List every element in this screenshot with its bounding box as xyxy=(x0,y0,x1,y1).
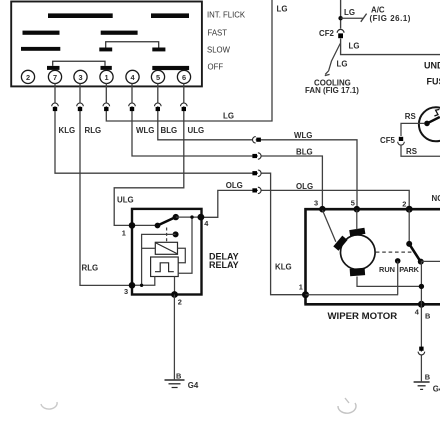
park contact wire right xyxy=(421,260,440,262)
relay coil K1 xyxy=(155,242,177,254)
svg-text:3: 3 xyxy=(124,287,128,296)
switch pad OFF 2 xyxy=(101,66,112,70)
terminal 2 internal wire to timer xyxy=(174,277,176,295)
wire CF2 down to underhood feed xyxy=(341,39,440,55)
svg-text:B: B xyxy=(176,371,181,380)
svg-text:FUSE/R: FUSE/R xyxy=(427,77,440,87)
page smudge left xyxy=(41,402,57,409)
svg-text:4: 4 xyxy=(204,219,209,228)
inline connector on OLG run xyxy=(252,187,261,193)
svg-text:INT. FLICK: INT. FLICK xyxy=(207,10,246,19)
svg-text:RELAY: RELAY xyxy=(209,260,239,270)
NC contact wire to left bus xyxy=(142,234,176,285)
connector pin on LG wire below switch xyxy=(103,103,110,111)
svg-text:CF2: CF2 xyxy=(319,29,335,38)
svg-text:OLG: OLG xyxy=(296,182,313,191)
delay relay terminal 4 dot xyxy=(198,214,205,221)
terminal 3 internal wire to timer xyxy=(132,277,155,286)
switch pad OFF 1 xyxy=(47,66,60,70)
wiper motor terminal 3 dot xyxy=(319,206,326,213)
connector CF5 xyxy=(398,137,405,145)
mechanical link dashed xyxy=(166,228,168,243)
bottom brush wire to park vertical xyxy=(357,277,421,287)
svg-text:SLOW: SLOW xyxy=(207,45,231,54)
dashed mechanical link motor to park xyxy=(376,251,412,253)
delay relay contact left dot xyxy=(155,223,161,229)
wiper motor terminal 5 dot xyxy=(354,206,361,213)
wire terminal 2 to park pivot xyxy=(408,210,410,242)
connector pin on WLG wire below switch xyxy=(129,103,136,111)
wiper motor box M1 xyxy=(304,208,440,304)
terminal circle 4 xyxy=(126,70,139,83)
svg-text:1: 1 xyxy=(299,283,303,292)
svg-text:PARK: PARK xyxy=(399,265,419,274)
svg-text:RS: RS xyxy=(405,112,416,121)
wire OLG from delay relay terminal 4 xyxy=(202,190,409,217)
wire terminal 5 to top brush xyxy=(356,210,358,230)
junction dot on term4 line xyxy=(190,215,193,218)
motor brush top xyxy=(349,228,365,237)
delay relay box U2 xyxy=(132,209,202,295)
svg-text:CF5: CF5 xyxy=(380,136,396,145)
delay relay ground wire xyxy=(173,295,175,380)
bridge wire SLOW xyxy=(106,42,159,48)
svg-text:2: 2 xyxy=(26,73,30,82)
wiper motor terminal 4 dot xyxy=(418,301,425,308)
connector CF2 xyxy=(337,29,344,38)
inline connector on KLG run xyxy=(252,170,261,176)
svg-text:OLG: OLG xyxy=(226,181,243,190)
svg-text:ULG: ULG xyxy=(117,196,134,205)
svg-text:WLG: WLG xyxy=(136,126,154,135)
inline connector on WLG run xyxy=(252,153,261,159)
svg-text:WIPER MOTOR: WIPER MOTOR xyxy=(328,311,398,322)
svg-text:WLG: WLG xyxy=(294,131,312,140)
connector pin on ground wire xyxy=(418,347,425,355)
switch bar SLOW left xyxy=(21,47,60,51)
svg-text:6: 6 xyxy=(182,73,186,82)
motor armature circle xyxy=(341,235,376,270)
park contact dot xyxy=(418,259,424,265)
svg-text:NOT: NOT xyxy=(432,194,440,203)
svg-text:2: 2 xyxy=(402,200,406,209)
wire LG from terminal 1 xyxy=(106,0,272,121)
svg-text:G4: G4 xyxy=(433,384,440,393)
delay relay wire contact to terminal 4 xyxy=(176,216,201,218)
svg-text:OFF: OFF xyxy=(208,63,224,72)
wiper switch box S1 xyxy=(11,2,202,87)
svg-text:4: 4 xyxy=(415,307,420,316)
switch bar INT.FLICK right xyxy=(151,13,189,18)
terminal circle 7 xyxy=(48,70,61,83)
terminal circle 2 xyxy=(21,70,34,83)
junction dot brush/park xyxy=(419,284,424,289)
junction dot LG/AC xyxy=(338,16,342,20)
motor brush left xyxy=(333,236,347,251)
wire terminal 3 to brush xyxy=(322,210,335,242)
connector pin on KLG wire below switch xyxy=(52,103,59,111)
svg-text:B: B xyxy=(425,372,430,381)
page smudge right xyxy=(338,398,356,413)
svg-text:B: B xyxy=(425,312,430,321)
svg-text:LG: LG xyxy=(349,42,360,51)
svg-text:5: 5 xyxy=(351,199,355,208)
svg-text:FAN (FIG 17.1): FAN (FIG 17.1) xyxy=(305,86,359,95)
park switch arm xyxy=(409,244,420,261)
relay arm tick xyxy=(434,109,439,116)
ground G4 xyxy=(165,380,185,388)
RS wire lower xyxy=(401,145,440,156)
terminal circle 3 xyxy=(74,70,87,83)
wiper terminal 4 ground wire xyxy=(420,304,422,381)
inline connector on BLG run xyxy=(253,137,261,143)
svg-text:(FIG 26.1): (FIG 26.1) xyxy=(370,14,411,23)
wire KLG from terminal 7 xyxy=(55,83,304,294)
timer lower-right lead to terminal 4 bus xyxy=(178,217,192,273)
svg-text:LG: LG xyxy=(277,5,288,14)
timer unit box xyxy=(151,257,179,277)
svg-text:7: 7 xyxy=(53,73,57,82)
terminal circle 6 xyxy=(177,70,190,83)
wire ULG from terminal 6 xyxy=(114,83,184,225)
svg-text:RLG: RLG xyxy=(82,263,99,272)
terminal circle 1 xyxy=(100,70,113,83)
svg-text:KLG: KLG xyxy=(275,262,292,271)
RUN contact wire to terminal 1 xyxy=(306,261,399,295)
switch pad SLOW 1 xyxy=(99,48,112,52)
wiper motor terminal 1 dot xyxy=(302,291,309,298)
svg-text:LG: LG xyxy=(337,60,348,69)
delay relay terminal 1 dot xyxy=(129,222,136,229)
svg-text:G4: G4 xyxy=(188,381,199,390)
LG feed wire vertical xyxy=(340,0,342,29)
connector pin on RLG wire below switch xyxy=(77,103,84,111)
RUN contact dot xyxy=(395,258,401,264)
arrow tip cooling fan xyxy=(325,71,330,76)
delay relay terminal 2 dot xyxy=(171,291,178,298)
delay relay contact arm xyxy=(158,217,176,226)
continuation slash A/C xyxy=(361,14,367,22)
coil left lead xyxy=(142,247,156,249)
svg-text:3: 3 xyxy=(78,73,82,82)
junction dot on term3 wire xyxy=(140,284,143,287)
svg-text:BLG: BLG xyxy=(296,147,313,156)
svg-text:3: 3 xyxy=(314,199,318,208)
park switch pivot dot xyxy=(406,241,412,247)
svg-text:1: 1 xyxy=(122,228,126,237)
svg-text:RS: RS xyxy=(406,147,417,156)
RS wire upper xyxy=(401,123,424,136)
switch bar INT.FLICK left xyxy=(48,13,113,18)
svg-text:LG: LG xyxy=(344,8,355,17)
svg-text:LG: LG xyxy=(223,111,234,120)
terminal circle 5 xyxy=(151,70,164,83)
svg-text:RUN: RUN xyxy=(379,265,395,274)
NC contact dot xyxy=(173,231,179,237)
svg-text:BLG: BLG xyxy=(161,126,178,135)
svg-text:FAST: FAST xyxy=(208,29,228,38)
park contact wire down to terminal 4 xyxy=(420,262,422,304)
connector pin on ULG wire below switch xyxy=(181,103,188,111)
svg-text:2: 2 xyxy=(178,297,182,306)
switch pad SLOW 2 xyxy=(152,48,165,52)
ground G4 right xyxy=(414,382,430,389)
coil right lead xyxy=(178,248,186,262)
wire WLG from terminal 4 xyxy=(132,83,322,207)
branch wire to cooling fan xyxy=(329,44,341,71)
svg-text:5: 5 xyxy=(156,73,160,82)
svg-text:RLG: RLG xyxy=(85,126,102,135)
relay contact arm xyxy=(427,117,440,123)
bridge wire OFF xyxy=(53,61,105,66)
wiper motor terminal 2 dot xyxy=(406,206,413,213)
svg-text:ULG: ULG xyxy=(188,126,205,135)
branch wire to A/C xyxy=(341,17,363,19)
delay relay contact right dot xyxy=(173,214,179,220)
svg-text:UNDER-: UNDER- xyxy=(424,61,440,71)
delay relay terminal 3 dot xyxy=(129,282,136,289)
switch bar FAST left xyxy=(23,31,60,35)
pulse symbol xyxy=(155,263,174,272)
wire RLG from terminal 3 xyxy=(80,83,131,285)
switch bar OFF right xyxy=(152,66,189,70)
connector pin on BLG wire below switch xyxy=(155,103,162,111)
wire BLG from terminal 5 xyxy=(158,83,357,207)
svg-text:1: 1 xyxy=(104,73,108,82)
relay contact dot xyxy=(424,121,430,127)
motor brush bottom xyxy=(350,268,365,276)
underhood relay circle xyxy=(419,107,440,141)
delay relay internal wire term1 to contact xyxy=(132,224,158,226)
svg-text:KLG: KLG xyxy=(59,126,76,135)
switch bar FAST right xyxy=(101,31,138,35)
